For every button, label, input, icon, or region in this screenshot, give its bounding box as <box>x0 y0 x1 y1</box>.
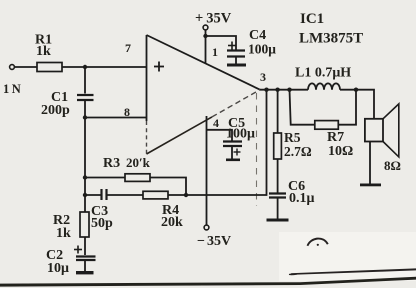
resistor R5 <box>277 90 279 133</box>
svg-text:20ʹk: 20ʹk <box>126 155 151 170</box>
node R7 right junction <box>354 88 358 92</box>
svg-text:+35V: +35V <box>195 11 232 27</box>
svg-text:4: 4 <box>213 116 219 130</box>
svg-text:8Ω: 8Ω <box>384 158 401 173</box>
wire C3 to R4 <box>107 194 144 196</box>
node C3 junction <box>83 193 87 197</box>
svg-text:7: 7 <box>125 41 131 55</box>
inductor L1 <box>308 83 340 89</box>
svg-text:200p: 200p <box>41 103 70 118</box>
svg-text:1: 1 <box>212 45 218 59</box>
resistor R2 <box>84 195 86 212</box>
resistor R7 parallel branch <box>290 90 315 125</box>
wire speaker to ground <box>369 142 371 184</box>
capacitor C6 <box>269 192 286 194</box>
ground C4 <box>227 64 246 67</box>
svg-text:IC1: IC1 <box>300 11 324 27</box>
svg-text:2.7Ω: 2.7Ω <box>284 144 312 159</box>
node R5 tap <box>275 88 279 92</box>
wire to C4 <box>206 36 237 50</box>
ground C5 <box>226 159 240 162</box>
wire to R3 <box>85 177 125 179</box>
capacitor C1 <box>84 67 86 94</box>
wire R3 to feedback node <box>150 178 186 196</box>
svg-text:3: 3 <box>260 70 266 84</box>
wire R1 to op-amp non-inverting input <box>62 66 147 68</box>
wire vertical feedback bus <box>84 118 86 196</box>
wire input to R1 <box>14 66 37 68</box>
output wire <box>260 89 308 91</box>
svg-text:LM3875T: LM3875T <box>299 31 363 47</box>
speaker 8 ohm <box>365 119 383 142</box>
svg-text:100μ: 100μ <box>226 127 255 142</box>
svg-text:0.1μ: 0.1μ <box>289 191 315 206</box>
svg-text:20k: 20k <box>161 215 183 230</box>
wire L1 to speaker <box>340 90 374 119</box>
ground C2 <box>76 271 94 274</box>
capacitor C5 <box>207 130 233 141</box>
svg-text:100μ: 100μ <box>248 42 276 57</box>
wire pin 1 supply <box>205 30 207 64</box>
svg-text:10Ω: 10Ω <box>328 144 353 159</box>
ground C6 <box>267 219 289 222</box>
svg-text:50p: 50p <box>91 216 113 231</box>
svg-text:R5: R5 <box>284 130 301 145</box>
svg-text:1N: 1N <box>3 82 23 96</box>
svg-text:1k: 1k <box>36 44 51 59</box>
op-amp U1 triangle <box>147 35 261 90</box>
node input junction <box>83 65 87 69</box>
svg-text:L1 0.7μH: L1 0.7μH <box>295 66 351 81</box>
capacitor C3 <box>85 194 102 196</box>
capacitor C2 <box>74 249 82 251</box>
svg-text:10μ: 10μ <box>47 261 69 276</box>
resistor R4 <box>143 191 168 199</box>
resistor R3 <box>125 174 150 182</box>
node C1 / pin8 junction <box>83 115 87 119</box>
ground speaker <box>360 184 381 187</box>
node R7 tap <box>287 88 291 92</box>
svg-text:1k: 1k <box>56 226 71 241</box>
wire pin 4 to -35V <box>206 116 208 225</box>
wire R4 to output node <box>168 90 267 195</box>
node R3/R4 junction <box>184 193 188 197</box>
input terminal 1N <box>10 65 15 70</box>
svg-text:R7: R7 <box>327 130 344 145</box>
node feedback tap <box>264 88 268 92</box>
capacitor C4 <box>228 45 236 47</box>
-35V terminal <box>204 225 209 230</box>
svg-text:−35V: −35V <box>197 234 231 249</box>
resistor R1 <box>37 63 62 72</box>
wire to inverting input pin 8 <box>85 117 147 119</box>
node R3 junction <box>83 175 87 179</box>
node supply junction <box>203 34 207 38</box>
svg-text:R3: R3 <box>103 156 120 171</box>
svg-text:8: 8 <box>124 105 130 119</box>
